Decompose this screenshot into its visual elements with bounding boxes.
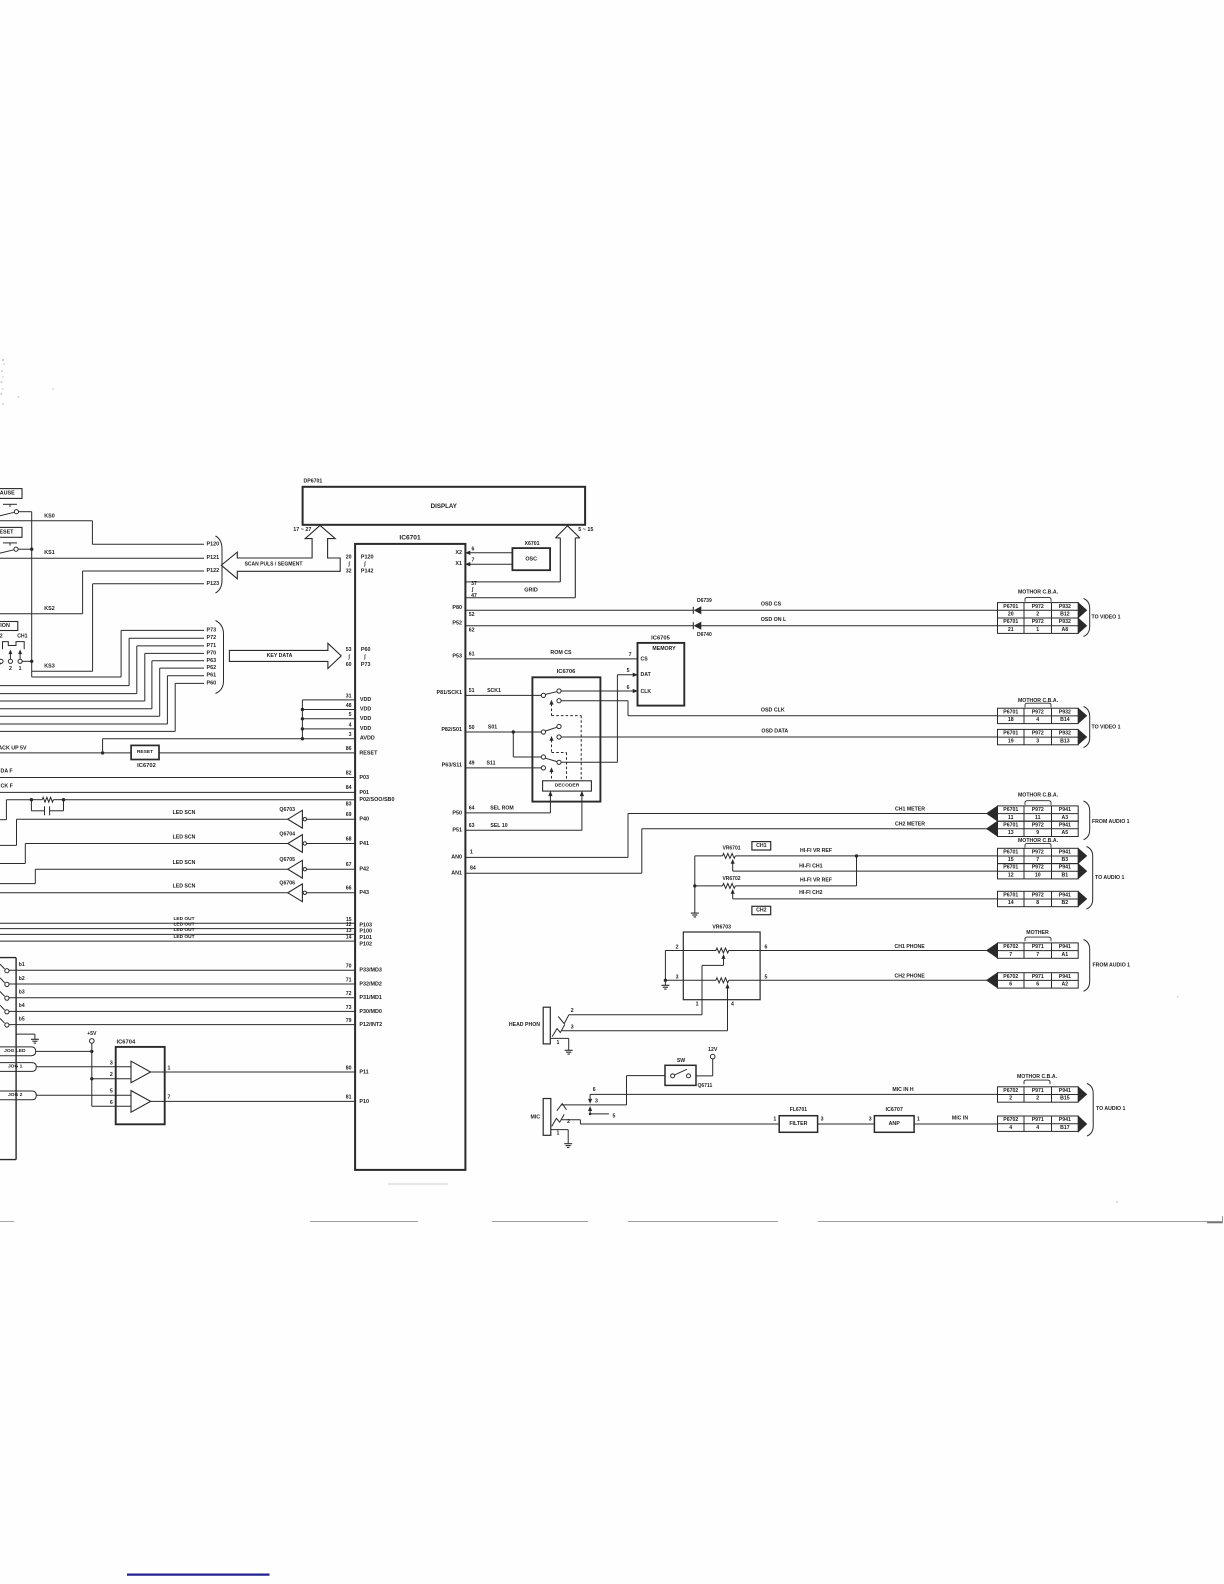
svg-text:RESET: RESET [359,750,378,756]
svg-text:P6701: P6701 [1003,604,1018,610]
svg-text:VDD: VDD [360,697,371,703]
svg-text:9: 9 [1036,830,1039,836]
svg-text:61: 61 [469,651,475,657]
svg-text:P120: P120 [361,555,374,561]
svg-text:JOG 1: JOG 1 [8,1064,23,1070]
svg-text:Q6706: Q6706 [279,881,295,887]
svg-text:SEL 10: SEL 10 [490,823,507,829]
svg-text:IC6707: IC6707 [886,1107,903,1113]
svg-text:1: 1 [696,1001,699,1007]
svg-text:P971: P971 [1032,974,1044,980]
svg-text:LED OUT: LED OUT [173,934,194,940]
svg-text:4: 4 [1036,1125,1039,1131]
svg-text:KS2: KS2 [44,606,55,612]
svg-text:P932: P932 [1059,731,1071,737]
svg-text:A2: A2 [1062,982,1069,988]
svg-text:P101: P101 [359,935,372,941]
svg-text:5: 5 [613,1113,616,1119]
svg-text:P102: P102 [359,942,372,948]
svg-text:P51: P51 [452,828,462,834]
svg-text:P02/SOO/SB0: P02/SOO/SB0 [359,797,394,803]
svg-text:1: 1 [19,666,22,672]
svg-text:Q6704: Q6704 [279,831,295,837]
svg-text:B15: B15 [1060,1096,1070,1102]
svg-text:IC6702: IC6702 [137,763,156,769]
svg-text:2: 2 [1036,1096,1039,1102]
svg-text:LED OUT: LED OUT [173,916,194,922]
svg-text:6: 6 [472,546,475,552]
svg-text:P972: P972 [1032,604,1044,610]
svg-text:P33/MD3: P33/MD3 [359,968,381,974]
svg-text:P01: P01 [359,790,369,796]
svg-text:P972: P972 [1032,892,1044,898]
svg-text:62: 62 [469,627,475,633]
svg-text:VR6703: VR6703 [712,925,731,931]
svg-text:1: 1 [557,1040,560,1046]
svg-text:13: 13 [1008,830,1014,836]
svg-text:CK F: CK F [1,783,14,789]
svg-text:X1: X1 [455,561,462,567]
svg-text:3: 3 [595,1099,598,1105]
svg-text:IC6706: IC6706 [557,669,576,675]
svg-text:84: 84 [470,866,476,872]
svg-text:ʃ: ʃ [363,562,366,568]
svg-text:A1: A1 [1062,952,1069,958]
svg-text:P60: P60 [361,647,371,653]
svg-text:P971: P971 [1032,944,1044,950]
svg-text:3: 3 [1036,738,1039,744]
svg-text:P6701: P6701 [1003,865,1018,871]
svg-text:P941: P941 [1059,944,1071,950]
svg-text:AN0: AN0 [451,854,462,860]
svg-text:5 ~ 15: 5 ~ 15 [578,527,593,533]
svg-text:P50: P50 [452,810,462,816]
svg-text:VDD: VDD [360,726,371,732]
svg-text:ROM CS: ROM CS [550,650,572,656]
svg-text:SCK1: SCK1 [487,688,501,694]
svg-text:31: 31 [346,693,352,699]
svg-text:KS0: KS0 [44,513,55,519]
svg-text:3: 3 [869,1117,872,1123]
svg-text:72: 72 [346,991,352,997]
svg-text:CH1 METER: CH1 METER [895,806,925,812]
svg-text:6: 6 [1036,982,1039,988]
svg-text:ʃ: ʃ [347,655,350,661]
svg-text:7: 7 [1036,952,1039,958]
svg-text:P121: P121 [207,555,220,561]
svg-text:Q6703: Q6703 [279,807,295,813]
svg-text:OSC: OSC [525,556,537,562]
svg-text:A8: A8 [1062,627,1069,633]
svg-text:S11: S11 [487,760,496,766]
svg-text:P52: P52 [452,621,462,627]
svg-text:DA F: DA F [1,769,14,775]
svg-text:5: 5 [349,712,352,718]
svg-text:B12: B12 [1060,611,1070,617]
svg-text:1: 1 [557,1130,560,1136]
svg-text:14: 14 [346,935,352,941]
svg-text:FILTER: FILTER [789,1121,807,1127]
svg-text:52: 52 [469,612,475,618]
svg-text:P73: P73 [207,627,217,633]
svg-text:P932: P932 [1059,709,1071,715]
svg-text:AVDD: AVDD [360,736,375,742]
svg-text:ʃ: ʃ [471,587,474,593]
svg-text:VDD: VDD [360,707,371,713]
svg-text:12V: 12V [708,1047,718,1053]
svg-text:ANP: ANP [889,1121,901,1127]
svg-text:b3: b3 [19,990,25,996]
svg-text:P6701: P6701 [1003,849,1018,855]
svg-text:5: 5 [627,668,630,674]
svg-text:21: 21 [1008,627,1014,633]
svg-text:63: 63 [469,823,475,829]
svg-text:VR6701: VR6701 [722,846,740,852]
svg-text:OSD DATA: OSD DATA [761,729,788,735]
svg-text:11: 11 [1008,815,1014,821]
svg-text:P31/MD1: P31/MD1 [359,995,381,1001]
svg-text:15: 15 [1008,857,1014,863]
svg-text:P941: P941 [1059,892,1071,898]
svg-text:FL6701: FL6701 [790,1107,807,1113]
svg-text:TO VIDEO 1: TO VIDEO 1 [1092,725,1121,731]
svg-text:P6702: P6702 [1003,944,1018,950]
svg-text:81: 81 [346,1095,352,1101]
svg-text:6: 6 [593,1087,596,1093]
svg-text:P6702: P6702 [1003,1088,1018,1094]
svg-text:2: 2 [1036,611,1039,617]
svg-text:20: 20 [346,555,352,561]
svg-text:MOTHOR C.B.A.: MOTHOR C.B.A. [1017,1074,1058,1080]
svg-text:5: 5 [110,1089,113,1095]
svg-text:P70: P70 [207,650,217,656]
svg-text:7: 7 [1009,952,1012,958]
svg-text:S01: S01 [488,725,497,731]
svg-text:P122: P122 [207,568,220,574]
svg-text:3: 3 [676,974,679,980]
svg-text:P142: P142 [361,569,374,575]
svg-text:67: 67 [346,862,352,868]
svg-text:LED SCN: LED SCN [173,860,196,866]
svg-text:P30/MD0: P30/MD0 [359,1009,381,1015]
svg-text:5: 5 [765,974,768,980]
svg-text:37: 37 [471,581,477,587]
svg-text:2: 2 [9,666,12,672]
svg-text:P972: P972 [1032,822,1044,828]
svg-text:P941: P941 [1059,822,1071,828]
svg-text:P972: P972 [1032,731,1044,737]
svg-text:69: 69 [346,812,352,818]
svg-text:B13: B13 [1060,738,1070,744]
svg-text:64: 64 [469,806,475,812]
svg-text:CH1 PHONE: CH1 PHONE [895,944,926,950]
svg-text:8: 8 [1036,900,1039,906]
svg-text:82: 82 [346,771,352,777]
svg-text:83: 83 [346,802,352,808]
svg-text:P972: P972 [1032,865,1044,871]
svg-text:P6702: P6702 [1003,1117,1018,1123]
svg-text:47: 47 [471,593,477,599]
svg-text:Q6711: Q6711 [698,1083,713,1089]
svg-text:P80: P80 [452,605,462,611]
svg-text:P6701: P6701 [1003,619,1018,625]
svg-text:IC6705: IC6705 [651,636,670,642]
svg-text:P6701: P6701 [1003,822,1018,828]
svg-text:MOTHOR C.B.A.: MOTHOR C.B.A. [1018,589,1059,595]
svg-text:7: 7 [1036,857,1039,863]
svg-text:B17: B17 [1060,1125,1070,1131]
svg-text:18: 18 [1008,717,1014,723]
svg-text:P972: P972 [1032,849,1044,855]
svg-text:B14: B14 [1060,717,1070,723]
svg-text:11: 11 [1035,815,1041,821]
svg-text:DAT: DAT [641,672,652,678]
svg-text:SCAN PULS / SEGMENT: SCAN PULS / SEGMENT [245,562,303,568]
svg-text:CLK: CLK [641,689,652,695]
svg-text:LED SCN: LED SCN [173,810,196,816]
svg-text:2: 2 [1009,1096,1012,1102]
svg-text:P6701: P6701 [1003,807,1018,813]
svg-text:MIC IN: MIC IN [952,1115,968,1121]
svg-text:3: 3 [110,1060,113,1066]
svg-text:ʃ: ʃ [347,562,350,568]
svg-text:P972: P972 [1032,807,1044,813]
svg-text:AN1: AN1 [451,870,462,876]
svg-text:P6701: P6701 [1003,709,1018,715]
svg-text:B3: B3 [1062,857,1069,863]
svg-text:60: 60 [346,662,352,668]
svg-text:50: 50 [469,725,475,731]
svg-text:CS: CS [641,656,649,662]
svg-text:IC6701: IC6701 [399,535,421,542]
svg-text:b5: b5 [19,1016,25,1022]
svg-text:P62: P62 [207,665,217,671]
svg-text:4: 4 [349,722,352,728]
svg-text:3: 3 [821,1117,824,1123]
svg-text:7: 7 [629,652,632,658]
svg-text:P41: P41 [359,841,369,847]
svg-text:VR6702: VR6702 [722,876,740,882]
svg-text:P6701: P6701 [1003,731,1018,737]
svg-text:P972: P972 [1032,619,1044,625]
svg-text:B2: B2 [1062,900,1069,906]
svg-text:P43: P43 [359,890,369,896]
svg-text:2: 2 [676,945,679,951]
svg-text:MIC: MIC [530,1115,540,1121]
svg-text:KEY DATA: KEY DATA [267,653,293,659]
svg-text:HI-FI CH1: HI-FI CH1 [799,864,822,870]
svg-text:6: 6 [1009,982,1012,988]
svg-text:GRID: GRID [524,587,538,593]
svg-text:70: 70 [346,964,352,970]
svg-text:1: 1 [168,1065,171,1071]
svg-text:2: 2 [571,1008,574,1014]
svg-text:7: 7 [472,558,475,564]
svg-text:1: 1 [773,1117,776,1123]
svg-text:3: 3 [571,1024,574,1030]
svg-text:P941: P941 [1059,1088,1071,1094]
svg-text:MOTHER: MOTHER [1026,930,1049,936]
svg-text:71: 71 [346,977,352,983]
svg-text:4: 4 [1036,717,1039,723]
svg-text:KS1: KS1 [44,550,55,556]
svg-text:P32/MD2: P32/MD2 [359,981,381,987]
svg-text:FROM AUDIO 1: FROM AUDIO 1 [1093,963,1131,969]
svg-text:68: 68 [346,836,352,842]
svg-text:P53: P53 [452,654,462,660]
svg-text:LED OUT: LED OUT [173,921,194,927]
svg-text:13: 13 [346,928,352,934]
svg-text:P42: P42 [359,867,369,873]
svg-text:P10: P10 [359,1099,369,1105]
svg-text:OSD ON L: OSD ON L [761,617,787,623]
svg-text:73: 73 [346,1005,352,1011]
svg-text:RESET: RESET [137,749,153,755]
svg-text:PAUSE: PAUSE [0,491,15,497]
svg-text:MEMORY: MEMORY [652,646,676,652]
svg-text:12: 12 [1008,872,1014,878]
svg-text:P941: P941 [1059,849,1071,855]
svg-text:P72: P72 [207,635,217,641]
svg-text:CH1: CH1 [17,633,27,639]
svg-text:JOG 2: JOG 2 [8,1092,23,1098]
svg-text:2: 2 [110,1072,113,1078]
svg-text:17 ~ 27: 17 ~ 27 [293,527,311,533]
svg-text:1: 1 [917,1117,920,1123]
svg-text:MIC IN H: MIC IN H [892,1087,914,1093]
svg-text:P6702: P6702 [1003,974,1018,980]
svg-text:4: 4 [1009,1125,1012,1131]
svg-text:LED OUT: LED OUT [173,927,194,933]
svg-text:CH2 PHONE: CH2 PHONE [895,974,926,980]
svg-text:P81/SCK1: P81/SCK1 [437,690,462,696]
svg-text:P120: P120 [207,541,220,547]
svg-text:HEAD PHON: HEAD PHON [509,1022,540,1028]
svg-text:CH1: CH1 [756,843,766,849]
svg-text:P932: P932 [1059,604,1071,610]
svg-text:48: 48 [346,703,352,709]
svg-text:MOTHOR C.B.A.: MOTHOR C.B.A. [1018,793,1059,799]
svg-text:19: 19 [1008,738,1014,744]
svg-text:HI-FI VR REF: HI-FI VR REF [800,878,832,884]
svg-text:84: 84 [346,785,352,791]
svg-text:P73: P73 [361,662,371,668]
svg-text:B1: B1 [1062,872,1069,878]
svg-text:P971: P971 [1032,1117,1044,1123]
svg-text:CH2: CH2 [756,908,766,914]
svg-text:OSD CS: OSD CS [761,602,782,608]
svg-text:P61: P61 [207,673,217,679]
svg-text:b1: b1 [19,962,25,968]
svg-text:P12/INT2: P12/INT2 [359,1022,382,1028]
svg-text:86: 86 [346,746,352,752]
svg-text:RESET: RESET [0,530,14,536]
svg-text:20: 20 [1008,611,1014,617]
svg-text:SW: SW [677,1058,685,1064]
svg-text:1: 1 [1036,627,1039,633]
svg-text:TO AUDIO 1: TO AUDIO 1 [1096,1106,1126,1112]
svg-text:b4: b4 [19,1003,25,1009]
svg-text:14: 14 [1008,900,1014,906]
svg-text:A5: A5 [1062,830,1069,836]
svg-text:P941: P941 [1059,1117,1071,1123]
svg-text:b2: b2 [19,976,25,982]
svg-text:10: 10 [1035,872,1041,878]
svg-text:2: 2 [567,1119,570,1125]
svg-text:6: 6 [765,945,768,951]
svg-text:HI-FI CH2: HI-FI CH2 [799,890,822,896]
svg-text:FUNCTION: FUNCTION [0,623,10,629]
svg-text:P40: P40 [359,817,369,823]
svg-text:P6701: P6701 [1003,892,1018,898]
svg-text:DECODER: DECODER [555,783,580,789]
svg-text:A3: A3 [1062,815,1069,821]
svg-text:P932: P932 [1059,619,1071,625]
svg-text:LED SCN: LED SCN [173,834,196,840]
svg-text:P63/S11: P63/S11 [442,763,462,769]
svg-text:6: 6 [110,1100,113,1106]
svg-text:H2: H2 [0,633,3,639]
svg-text:3: 3 [349,732,352,738]
svg-text:P100: P100 [359,929,372,935]
svg-text:P972: P972 [1032,709,1044,715]
svg-text:SEL ROM: SEL ROM [490,805,514,811]
svg-text:TO VIDEO 1: TO VIDEO 1 [1092,615,1121,621]
svg-text:1: 1 [470,850,473,856]
svg-text:JOG LED: JOG LED [4,1048,26,1054]
svg-text:OSD CLK: OSD CLK [761,707,785,713]
svg-text:P71: P71 [207,643,217,649]
svg-text:Q6705: Q6705 [279,857,295,863]
svg-text:4: 4 [731,1001,734,1007]
svg-text:P941: P941 [1059,865,1071,871]
svg-text:IC6704: IC6704 [117,1039,136,1045]
svg-text:VDD: VDD [360,716,371,722]
svg-text:D6740: D6740 [697,632,712,638]
svg-text:+5V: +5V [87,1031,97,1037]
svg-text:P11: P11 [359,1069,368,1075]
svg-text:66: 66 [346,886,352,892]
svg-text:51: 51 [469,688,475,694]
svg-text:P941: P941 [1059,974,1071,980]
svg-text:P63: P63 [207,658,217,664]
svg-text:P82/S01: P82/S01 [441,727,462,733]
svg-text:P971: P971 [1032,1088,1044,1094]
svg-text:53: 53 [346,647,352,653]
svg-text:BACK UP 5V: BACK UP 5V [0,745,27,751]
svg-text:P03: P03 [359,775,369,781]
svg-text:P60: P60 [207,680,217,686]
svg-text:KS3: KS3 [44,663,55,669]
svg-text:80: 80 [346,1065,352,1071]
svg-text:DISPLAY: DISPLAY [431,503,458,510]
svg-text:X6701: X6701 [524,541,539,547]
svg-text:CH2 METER: CH2 METER [895,822,925,828]
svg-text:DP6701: DP6701 [304,479,323,485]
svg-text:32: 32 [346,569,352,575]
svg-text:P941: P941 [1059,807,1071,813]
svg-text:X2: X2 [455,550,462,556]
svg-text:TO AUDIO 1: TO AUDIO 1 [1095,875,1125,881]
svg-text:79: 79 [346,1018,352,1024]
svg-text:6: 6 [627,685,630,691]
svg-text:ʃ: ʃ [363,655,366,661]
svg-text:D6739: D6739 [697,598,712,604]
svg-text:HI-FI VR REF: HI-FI VR REF [800,848,832,854]
svg-text:FROM AUDIO 1: FROM AUDIO 1 [1092,819,1130,825]
svg-text:LED SCN: LED SCN [173,884,196,890]
svg-text:7: 7 [168,1095,171,1101]
